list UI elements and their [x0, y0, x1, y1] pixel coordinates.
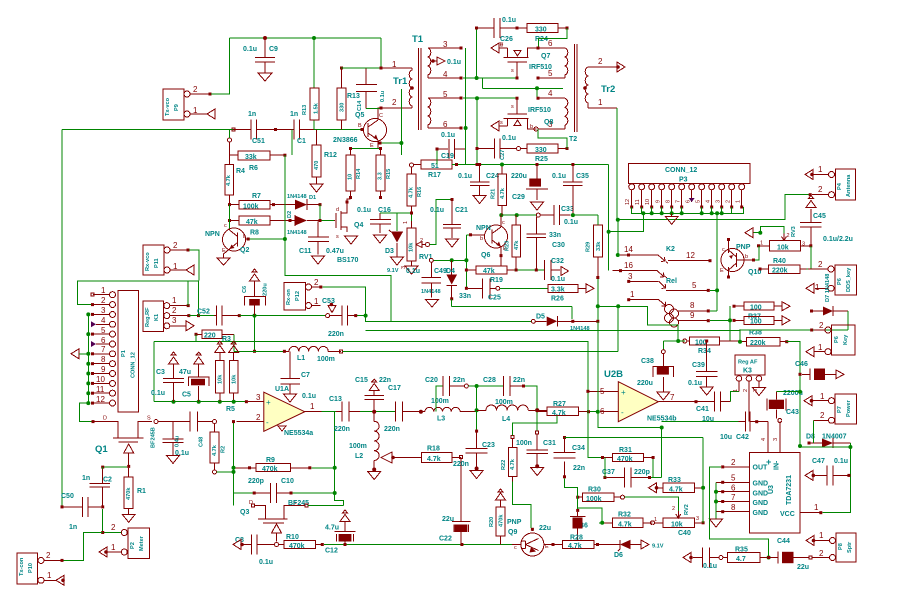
power flag R20 — [496, 489, 506, 500]
svg-text:1: 1 — [815, 283, 820, 292]
svg-text:R13: R13 — [302, 105, 308, 115]
wire C42 row to feedback — [662, 421, 739, 423]
svg-text:TDA7231: TDA7231 — [786, 475, 793, 505]
wire Q6 base rail — [466, 234, 469, 236]
ground C9 — [258, 73, 272, 81]
relay K1 Reg.RF — [143, 296, 190, 332]
svg-text:C: C — [379, 113, 383, 119]
svg-text:4.7: 4.7 — [736, 556, 746, 563]
svg-text:330: 330 — [535, 147, 547, 154]
svg-text:BS170: BS170 — [337, 257, 359, 264]
svg-text:L4: L4 — [502, 416, 510, 423]
svg-text:CONN_12: CONN_12 — [665, 167, 697, 174]
svg-text:10k: 10k — [218, 374, 224, 384]
wire U3 pin2 input net — [709, 467, 768, 558]
wire antenna rail lower — [617, 220, 619, 255]
svg-text:R18: R18 — [427, 446, 440, 453]
svg-text:0.1u: 0.1u — [502, 17, 516, 24]
wire plus-input row — [154, 401, 247, 403]
flag C40 — [683, 553, 691, 563]
svg-text:220: 220 — [204, 333, 216, 340]
wire C41 to K3 pin1 — [731, 392, 739, 402]
svg-text:1: 1 — [598, 98, 603, 107]
svg-text:K2: K2 — [666, 246, 675, 253]
svg-text:K3: K3 — [743, 368, 752, 375]
svg-text:1: 1 — [733, 389, 739, 392]
svg-text:Tr2: Tr2 — [601, 84, 615, 95]
svg-text:4.7u: 4.7u — [325, 525, 339, 532]
resistor R30 100k — [576, 487, 624, 503]
transistor Q10 PNP — [720, 238, 761, 279]
wire C16/D3/RV1 net — [380, 213, 412, 231]
wire audio bottom bus — [324, 544, 512, 546]
svg-text:0.1u: 0.1u — [380, 90, 386, 102]
svg-text:C19: C19 — [441, 153, 454, 160]
svg-text:NE5534a: NE5534a — [284, 430, 313, 437]
svg-text:C21: C21 — [455, 207, 468, 214]
wire P11 net to P1 pins 1-2 — [78, 281, 200, 305]
svg-text:0.47u: 0.47u — [326, 248, 344, 255]
resistor R35 4.7 — [723, 547, 769, 564]
wire audio row left — [239, 315, 325, 317]
flag D6 — [641, 540, 649, 549]
svg-text:1n: 1n — [69, 524, 77, 531]
resistor R13 1.5k — [302, 88, 320, 120]
wire R30 to RV2 wiper — [625, 497, 679, 511]
resistor R16 4.7k — [407, 163, 423, 213]
svg-text:220k: 220k — [750, 340, 766, 347]
capacitor C30 — [527, 217, 565, 270]
wire R2 bottom to feedback — [217, 471, 234, 473]
flag R26 — [586, 284, 594, 293]
svg-text:C46: C46 — [795, 361, 808, 368]
wire R3 left stub — [195, 334, 197, 341]
svg-text:7: 7 — [670, 393, 675, 402]
resistor R37 100 — [733, 316, 783, 325]
svg-text:P8: P8 — [838, 543, 844, 550]
svg-text:1: 1 — [101, 286, 106, 295]
svg-text:220n: 220n — [384, 426, 400, 433]
svg-text:R30: R30 — [588, 487, 601, 494]
resistor R34 100 — [683, 337, 741, 355]
relay K2 coil pin9 — [678, 311, 710, 322]
svg-text:330: 330 — [535, 27, 547, 34]
wire C14 top to pin1 node — [341, 67, 381, 69]
ground C31 — [531, 468, 544, 476]
svg-text:3: 3 — [256, 393, 261, 402]
svg-text:R15: R15 — [386, 169, 392, 179]
capacitor C12 4.7u — [325, 522, 355, 555]
svg-text:1n: 1n — [248, 111, 256, 118]
wire R27 to U2B pin6 — [589, 411, 598, 413]
svg-text:3: 3 — [716, 200, 722, 203]
transformer T2 core — [575, 44, 578, 132]
inductor L1 — [284, 346, 342, 363]
svg-text:220n: 220n — [328, 331, 344, 338]
svg-text:2: 2 — [173, 241, 178, 250]
svg-text:3.3: 3.3 — [378, 172, 384, 180]
capacitor C38 220u — [637, 350, 674, 392]
svg-text:Q7: Q7 — [541, 53, 550, 60]
flag R18 — [381, 452, 392, 463]
svg-text:0.1u: 0.1u — [688, 380, 702, 387]
flag P2 pin1 — [99, 547, 107, 557]
svg-text:S: S — [147, 416, 151, 422]
svg-text:0.1u: 0.1u — [441, 132, 455, 139]
svg-text:C14: C14 — [357, 100, 363, 111]
capacitor C3 — [151, 364, 184, 402]
no-connect flag P11 pin1 — [186, 265, 194, 275]
svg-text:R26: R26 — [551, 296, 564, 303]
relay K2 contact 1 — [627, 290, 666, 306]
svg-text:C45: C45 — [813, 213, 826, 220]
svg-text:+: + — [266, 398, 271, 407]
ground C7 — [284, 394, 297, 402]
svg-text:C32: C32 — [551, 258, 564, 265]
transformer T2 pin5 lead — [538, 77, 565, 79]
capacitor C47 — [812, 458, 851, 485]
capacitor C42 10u — [720, 412, 768, 441]
svg-text:C42: C42 — [736, 434, 749, 441]
svg-text:12: 12 — [625, 199, 631, 205]
wire net A T1 pin4 to Q7 source — [463, 77, 517, 79]
wire C28 down to L4 — [525, 386, 537, 410]
svg-text:22u: 22u — [539, 525, 551, 532]
resistor R12 470 — [312, 130, 337, 185]
svg-text:+: + — [621, 388, 626, 397]
svg-text:1: 1 — [111, 543, 116, 552]
svg-text:100: 100 — [695, 339, 707, 346]
wire gnd bus y163.6 — [452, 164, 609, 166]
resistor 10k a — [216, 352, 225, 401]
svg-text:100k: 100k — [243, 203, 259, 210]
resistor R21 4.7k — [491, 163, 507, 216]
capacitor C26 — [475, 17, 517, 43]
wire minus-input rail — [233, 422, 235, 506]
wire R39 to supply drop — [787, 342, 800, 446]
svg-text:R21: R21 — [491, 189, 497, 199]
svg-text:C15: C15 — [355, 377, 368, 384]
svg-text:R8: R8 — [250, 230, 259, 237]
wire rail y351.7 filter — [440, 351, 618, 353]
svg-text:P12: P12 — [295, 291, 301, 301]
svg-text:D6: D6 — [614, 552, 623, 559]
wire C34 bottom lead — [564, 462, 566, 477]
svg-text:6: 6 — [731, 483, 736, 492]
svg-text:0.1u: 0.1u — [259, 559, 273, 566]
svg-text:P1: P1 — [121, 350, 127, 357]
svg-text:c: c — [502, 220, 505, 226]
svg-text:0.1u: 0.1u — [357, 207, 371, 214]
svg-text:s: s — [336, 234, 339, 240]
wire L1 row left — [234, 350, 285, 352]
svg-text:4.7k: 4.7k — [552, 410, 566, 417]
svg-text:R35: R35 — [735, 547, 748, 554]
svg-text:P9: P9 — [174, 104, 180, 111]
transformer T2 pin6 lead — [538, 47, 565, 49]
capacitor C35 — [552, 163, 589, 215]
wire K2 riser x717 — [716, 213, 718, 311]
svg-text:R23: R23 — [505, 241, 511, 251]
wire Q5 emitter to R14/R15 — [351, 148, 380, 150]
svg-text:4: 4 — [443, 70, 448, 79]
svg-text:470k: 470k — [498, 514, 504, 527]
svg-text:R5: R5 — [226, 406, 235, 413]
resistor R5 10k b — [226, 352, 238, 413]
wire D7 join — [812, 329, 848, 331]
svg-text:D5: D5 — [536, 314, 545, 321]
P3 pins — [625, 184, 745, 209]
wire U3 gnd comb — [715, 482, 717, 519]
capacitor C31 — [516, 431, 556, 468]
wire T1 pin1 riser from bus — [380, 38, 382, 68]
wire R31/C37 loop — [605, 458, 662, 478]
svg-text:4.7k: 4.7k — [510, 458, 516, 470]
svg-text:Q5: Q5 — [355, 112, 364, 119]
svg-text:2: 2 — [819, 321, 824, 330]
wire R6 tap — [291, 130, 293, 156]
ground C21 — [446, 239, 459, 247]
wire VCC to supply — [822, 447, 850, 513]
svg-text:47k: 47k — [483, 268, 495, 275]
svg-text:10k: 10k — [231, 374, 237, 384]
svg-text:1n: 1n — [82, 475, 90, 482]
svg-text:P4: P4 — [837, 182, 843, 190]
flag P4 pin1 — [805, 170, 813, 180]
wire C6 to L1 row — [254, 318, 256, 352]
svg-text:1: 1 — [172, 296, 177, 305]
svg-text:220u: 220u — [637, 380, 653, 387]
wire C14 bottom to pin2 node — [366, 108, 380, 110]
svg-text:3: 3 — [802, 242, 805, 248]
svg-text:6: 6 — [548, 39, 553, 48]
svg-text:22n: 22n — [513, 377, 525, 384]
svg-text:11: 11 — [635, 199, 641, 205]
svg-text:P3: P3 — [679, 177, 688, 184]
wire Q6 collector — [500, 214, 502, 216]
capacitor C46 — [795, 361, 836, 380]
wire C45/RV3 pin3 down to R40 row — [807, 246, 811, 269]
svg-text:4.7k: 4.7k — [409, 186, 415, 198]
transistor Q9 PNP — [507, 519, 555, 556]
svg-text:s: s — [511, 104, 514, 110]
svg-text:12: 12 — [96, 395, 105, 404]
capacitor C2 — [82, 469, 112, 508]
svg-text:RV3: RV3 — [791, 226, 797, 237]
power flag C3 — [169, 352, 179, 364]
svg-text:C37: C37 — [602, 469, 615, 476]
svg-text:6: 6 — [443, 120, 448, 129]
capacitor C34 — [554, 436, 704, 472]
capacitor C17 — [384, 385, 421, 433]
svg-text:2: 2 — [731, 458, 736, 467]
svg-text:C9: C9 — [269, 46, 278, 53]
svg-text:R24: R24 — [535, 36, 548, 43]
wire C43 top to supply — [776, 391, 800, 393]
svg-text:-: - — [621, 408, 624, 417]
svg-text:R31: R31 — [619, 447, 632, 454]
svg-text:C51: C51 — [252, 138, 265, 145]
svg-text:0.1u: 0.1u — [703, 563, 717, 570]
svg-text:L3: L3 — [437, 416, 445, 423]
svg-text:C43: C43 — [786, 409, 799, 416]
wire Q5 collector to T1 pin2 node — [378, 108, 381, 110]
relay K3 Reg AF — [733, 355, 765, 422]
svg-text:b: b — [480, 236, 483, 242]
U3 VCC pin — [800, 503, 822, 514]
capacitor C8 — [235, 535, 274, 567]
resistor R14 10 — [346, 149, 362, 198]
wire contact5 to riser — [710, 289, 717, 291]
wire top supply bus — [230, 37, 382, 39]
svg-text:Tx-con: Tx-con — [19, 557, 25, 576]
svg-text:5: 5 — [443, 90, 448, 99]
svg-text:1N4007: 1N4007 — [822, 434, 847, 441]
wire R15 bottom to gnd rail — [380, 197, 382, 199]
capacitor C36 22u — [539, 509, 588, 541]
svg-text:C50: C50 — [61, 493, 74, 500]
flag Q7 gate — [491, 43, 499, 53]
connector P4 Antenna — [809, 165, 856, 200]
svg-text:1: 1 — [403, 221, 409, 224]
wire AGC snake — [452, 306, 685, 349]
svg-text:Q3: Q3 — [240, 509, 249, 516]
svg-text:0.1u: 0.1u — [302, 393, 316, 400]
flag P1 pin7 — [71, 349, 79, 359]
wire R14 bottom node — [350, 197, 352, 199]
svg-text:3: 3 — [101, 306, 106, 315]
resistor R7 100k — [228, 193, 292, 210]
svg-text:9.1V: 9.1V — [387, 268, 399, 274]
svg-text:C52: C52 — [197, 309, 210, 316]
svg-text:5: 5 — [548, 69, 553, 78]
svg-text:4.7k: 4.7k — [212, 444, 218, 456]
svg-text:0.4u: 0.4u — [175, 435, 181, 447]
resistor R15 3.3 — [376, 149, 392, 198]
svg-text:1: 1 — [736, 200, 742, 203]
svg-text:C23: C23 — [482, 442, 495, 449]
svg-text:Rel: Rel — [666, 278, 677, 285]
svg-text:Meter: Meter — [139, 535, 145, 551]
svg-text:470k: 470k — [617, 456, 633, 463]
inductor L2 — [349, 412, 379, 472]
svg-text:D: D — [103, 416, 107, 422]
ground C49 — [426, 300, 439, 308]
svg-text:1N4148: 1N4148 — [421, 289, 441, 295]
svg-text:1: 1 — [630, 290, 635, 299]
svg-text:12: 12 — [686, 251, 695, 260]
resistor R36 100 — [733, 302, 783, 311]
svg-text:10k: 10k — [409, 242, 415, 252]
svg-text:c: c — [224, 223, 227, 229]
svg-text:4.7k: 4.7k — [618, 522, 632, 529]
svg-text:1: 1 — [819, 531, 824, 540]
wire to P10 — [63, 533, 103, 561]
resistor R33 4.7k — [655, 477, 705, 494]
ground L2 — [368, 472, 381, 480]
capacitor C44 22u — [767, 538, 829, 571]
capacitor C25 — [459, 278, 501, 301]
diode D2 1N4148 — [287, 211, 320, 236]
svg-text:1n: 1n — [290, 111, 298, 118]
svg-text:C34: C34 — [572, 445, 585, 452]
svg-text:C47: C47 — [812, 458, 825, 465]
wire C26 rail x476.6 — [476, 28, 478, 78]
svg-text:100m: 100m — [317, 356, 335, 363]
svg-text:R22: R22 — [501, 460, 507, 470]
diode D7 — [810, 306, 848, 316]
wire P3 pin12 to supply rail — [609, 213, 644, 231]
svg-text:2: 2 — [820, 411, 825, 420]
wire key line y330 — [366, 329, 740, 331]
wire C33 row — [501, 215, 598, 225]
power flag 10k b — [229, 341, 239, 352]
svg-text:P7: P7 — [837, 406, 843, 413]
resistor R9 470k — [236, 457, 312, 473]
wire net C center tap — [482, 78, 563, 98]
capacitor C9 — [243, 40, 278, 73]
svg-text:100k: 100k — [586, 496, 602, 503]
svg-text:100: 100 — [750, 305, 762, 312]
capacitor C28 — [483, 376, 525, 396]
wire C36/R32 node — [578, 508, 603, 523]
transformer T1 secondary — [412, 34, 463, 130]
wire R6/D nets vertical — [284, 155, 286, 239]
capacitor C15 — [355, 377, 391, 412]
wire AGC to D5 cathode — [571, 306, 573, 319]
capacitor C16 — [357, 207, 391, 233]
capacitor C45 — [800, 209, 853, 246]
svg-text:4.7k: 4.7k — [500, 187, 506, 199]
svg-text:2: 2 — [787, 233, 790, 239]
svg-text:0.1u: 0.1u — [564, 219, 578, 226]
svg-text:C1: C1 — [297, 138, 306, 145]
wire C34 to R30/C36 — [565, 479, 578, 509]
svg-text:1N4148: 1N4148 — [287, 194, 307, 200]
svg-text:C6: C6 — [242, 286, 248, 293]
svg-text:GND: GND — [753, 510, 769, 517]
wire RV3 wiper net — [752, 227, 784, 234]
svg-text:8: 8 — [731, 503, 736, 512]
wire D1/D2 to Q4 gate — [320, 205, 334, 221]
capacitor C32 — [544, 258, 565, 283]
capacitor C51 — [233, 111, 276, 145]
capacitor 0.1u bias — [163, 422, 189, 457]
wire C42 to U3 pin4 — [767, 422, 769, 453]
ground C38 — [657, 392, 670, 400]
svg-text:-: - — [266, 418, 269, 427]
svg-text:4: 4 — [761, 438, 767, 441]
svg-text:C13: C13 — [329, 396, 342, 403]
svg-text:RV1: RV1 — [419, 254, 433, 261]
flag P8 pin1 — [806, 536, 814, 546]
svg-text:GND: GND — [753, 481, 769, 488]
svg-text:5: 5 — [101, 326, 106, 335]
svg-text:Key: Key — [843, 334, 849, 345]
connector P7 Power — [813, 392, 857, 424]
svg-text:Antenna: Antenna — [846, 174, 852, 197]
svg-text:1: 1 — [310, 402, 315, 411]
resistor R40 220k — [759, 258, 807, 275]
zener D6 9.1V — [604, 540, 664, 559]
svg-text:D1: D1 — [309, 195, 316, 201]
resistor R4 4.7k — [225, 130, 245, 205]
svg-text:D4: D4 — [446, 268, 455, 275]
svg-text:U2B: U2B — [604, 369, 623, 380]
resistor R25 330 — [521, 144, 569, 163]
svg-text:C31: C31 — [543, 440, 556, 447]
svg-text:22u: 22u — [797, 564, 809, 571]
